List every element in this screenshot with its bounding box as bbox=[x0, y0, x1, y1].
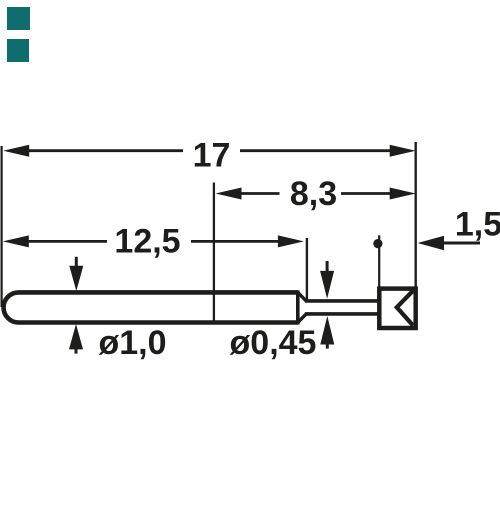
dimension 17: left arrowhead bbox=[3, 145, 29, 157]
head block outline bbox=[379, 289, 415, 328]
stroke position marker dot bbox=[373, 239, 382, 248]
extension line left (tip of probe) bbox=[1, 146, 3, 307]
taper bottom edge bbox=[298, 314, 306, 323]
taper top edge bbox=[298, 292, 306, 301]
svg-text:ø0,45: ø0,45 bbox=[230, 324, 317, 362]
dimension 8,3: right line segment bbox=[341, 192, 391, 195]
stroke position marker drop line bbox=[378, 235, 380, 286]
extension line middle (8,3 reference) bbox=[213, 183, 215, 323]
dimension 8,3: right arrowhead bbox=[390, 188, 416, 200]
dimension 17: left line segment bbox=[27, 149, 183, 152]
diameter 1,0: lower arrow shaft bbox=[75, 349, 78, 354]
extension line right (end of head) bbox=[415, 142, 417, 288]
dimension 12,5: right line segment bbox=[191, 240, 279, 243]
barrel end face bbox=[296, 290, 300, 324]
probe barrel outline (stadium, rounded tip left) bbox=[4, 292, 298, 322]
svg-text:1,5: 1,5 bbox=[455, 205, 500, 243]
diameter 0,45: upper arrow shaft bbox=[326, 261, 329, 272]
head chevron (receptacle symbol) bbox=[397, 291, 413, 326]
extension line at barrel step (12,5 reference) bbox=[306, 238, 308, 300]
plunger bottom edge bbox=[305, 312, 379, 316]
diameter 0,45: lower arrow shaft bbox=[326, 344, 329, 349]
logo mark upper teal square bbox=[7, 7, 30, 30]
plunger top edge bbox=[305, 299, 379, 303]
diameter 1,0: upper arrow shaft bbox=[75, 257, 78, 268]
dimension 17: right line segment bbox=[240, 149, 391, 152]
dimension 12,5: right arrowhead bbox=[278, 235, 304, 247]
diameter 1,0: lower arrowhead (up) bbox=[69, 324, 83, 349]
diameter 1,0: upper arrowhead (down) bbox=[69, 266, 83, 291]
diameter 0,45: upper arrowhead (down) bbox=[320, 271, 334, 299]
dimension 1,5: arrowhead pointing left at head face bbox=[418, 236, 444, 250]
dimension 12,5: left arrowhead bbox=[3, 235, 29, 247]
dimension 8,3: left line segment bbox=[241, 192, 280, 195]
svg-text:17: 17 bbox=[193, 137, 231, 175]
dimension 8,3: left arrowhead bbox=[216, 188, 242, 200]
svg-text:12,5: 12,5 bbox=[114, 222, 180, 260]
logo mark lower teal square bbox=[7, 39, 29, 62]
svg-text:ø1,0: ø1,0 bbox=[98, 324, 166, 362]
dimension 12,5: left line segment bbox=[27, 240, 107, 243]
dimension 17: right arrowhead bbox=[390, 145, 416, 157]
svg-text:8,3: 8,3 bbox=[290, 175, 337, 213]
dimension 1,5: leader line bbox=[443, 242, 480, 245]
diameter 0,45: lower arrowhead (up) bbox=[320, 316, 334, 345]
